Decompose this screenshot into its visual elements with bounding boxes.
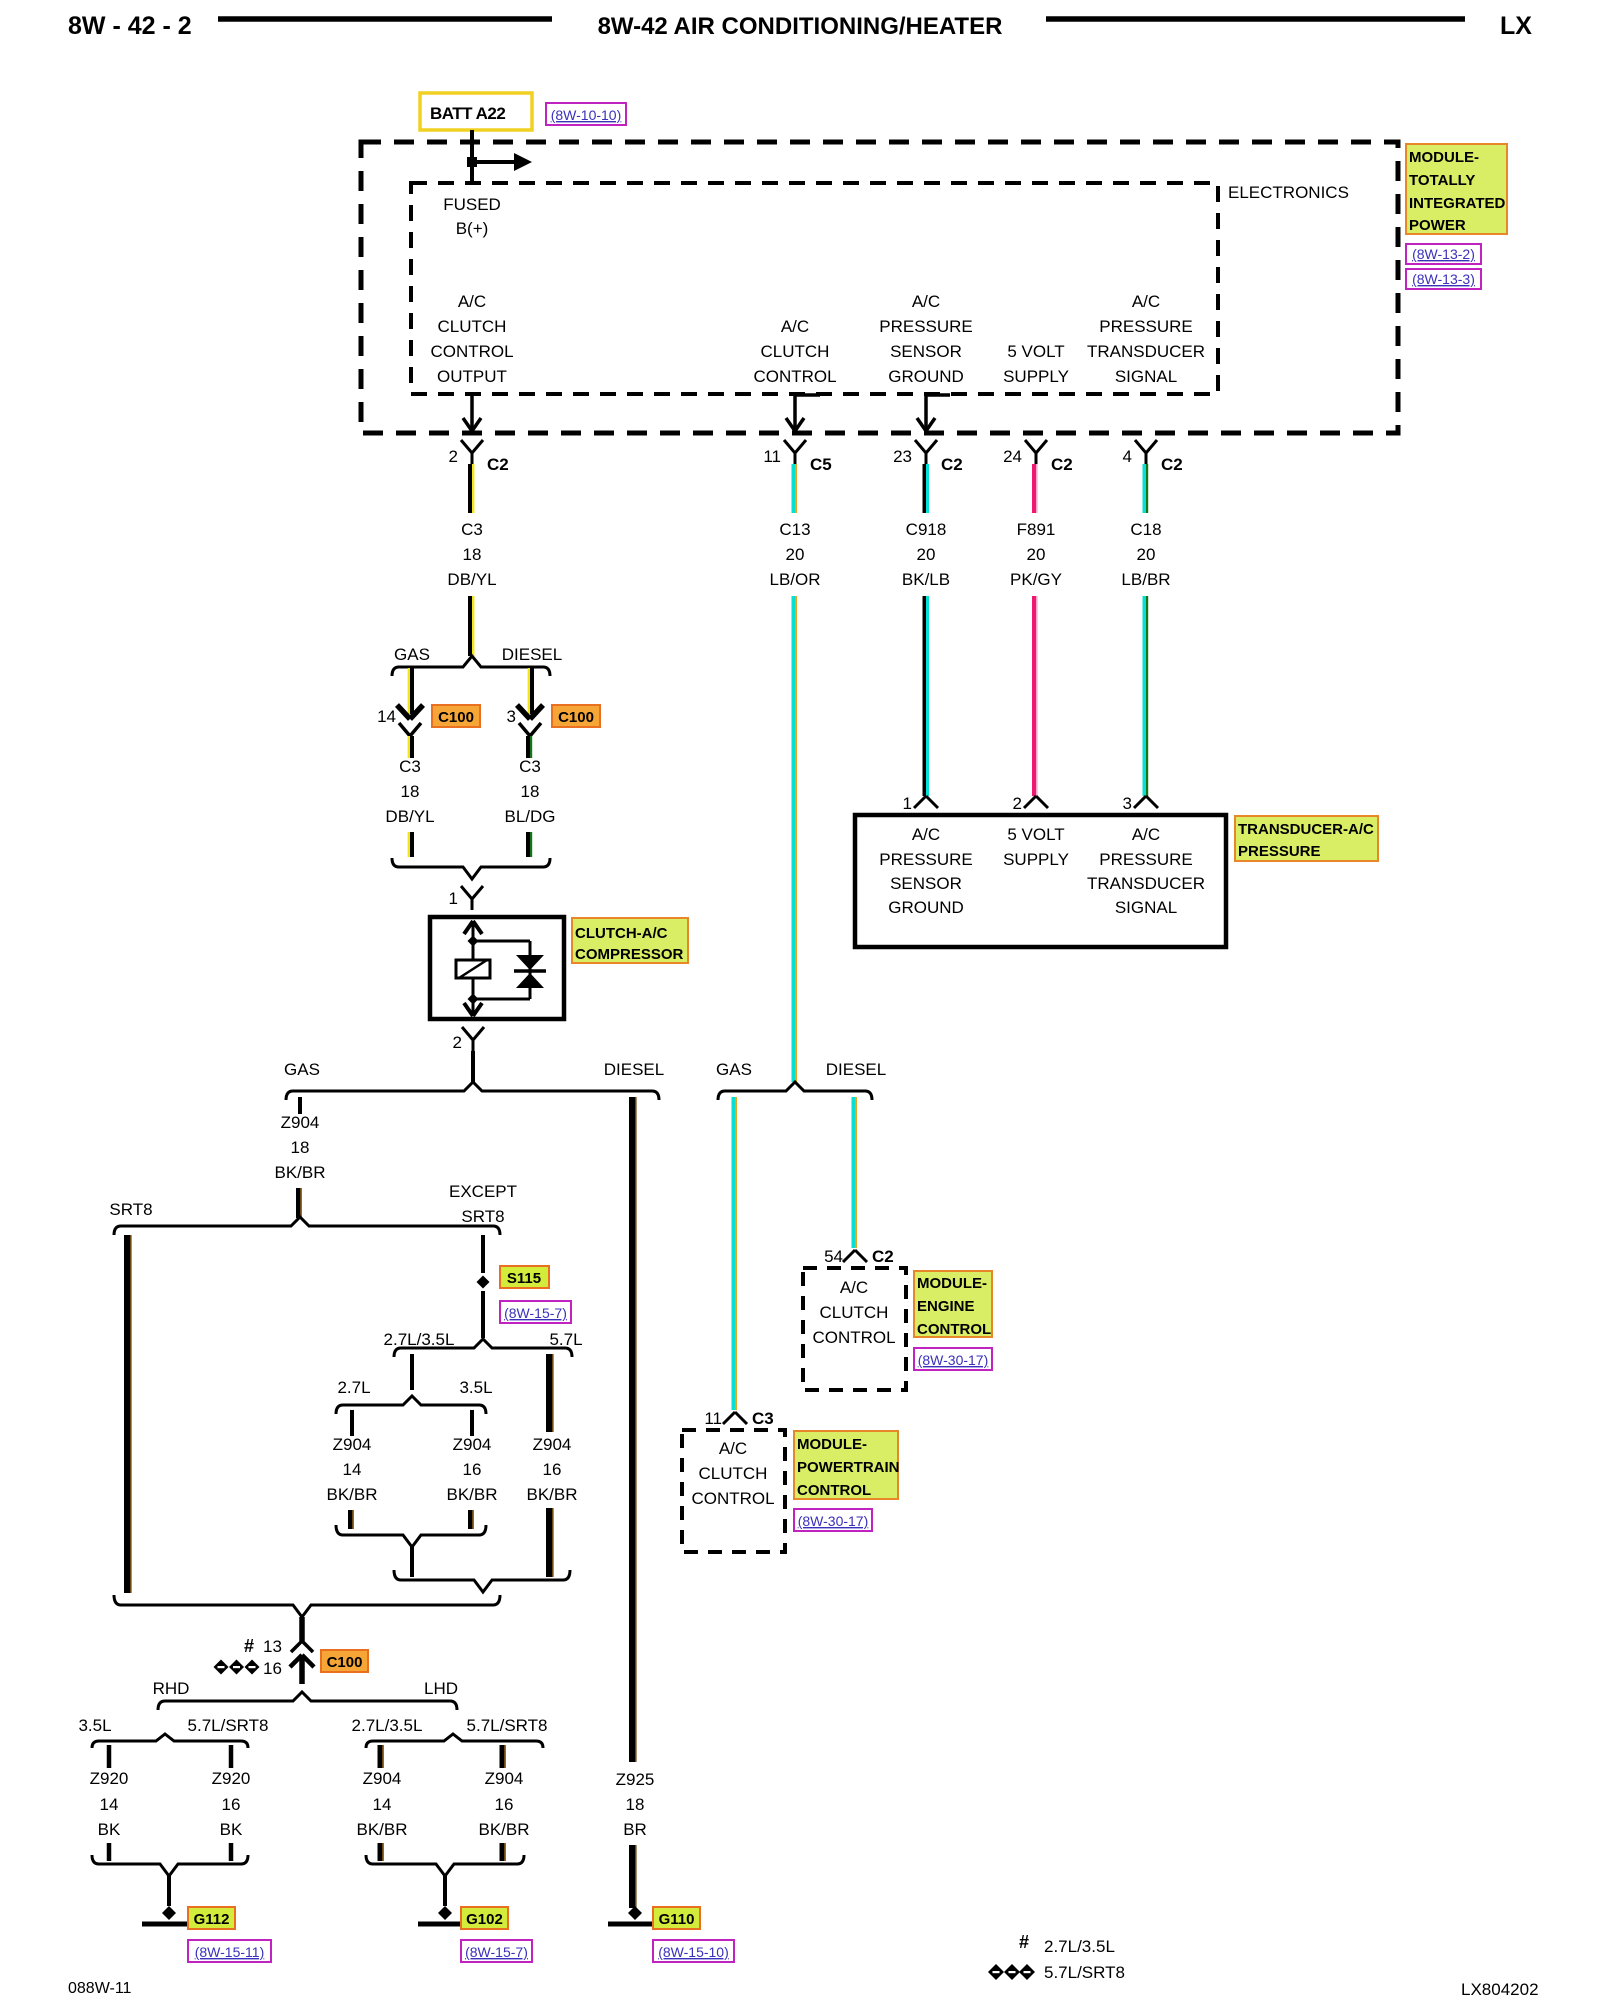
svg-text:BK/BR: BK/BR xyxy=(356,1820,407,1839)
svg-text:24: 24 xyxy=(1003,447,1022,466)
svg-text:11: 11 xyxy=(704,1409,722,1428)
svg-text:20: 20 xyxy=(917,545,936,564)
svg-text:16: 16 xyxy=(543,1460,562,1479)
svg-text:CONTROL: CONTROL xyxy=(691,1489,774,1508)
svg-text:Z904: Z904 xyxy=(281,1113,320,1132)
svg-text:2.7L: 2.7L xyxy=(337,1378,370,1397)
svg-text:14: 14 xyxy=(100,1795,119,1814)
svg-text:A/C: A/C xyxy=(912,825,940,844)
svg-text:(8W-10-10): (8W-10-10) xyxy=(551,107,622,123)
svg-text:14: 14 xyxy=(377,707,396,726)
svg-text:TRANSDUCER: TRANSDUCER xyxy=(1087,874,1205,893)
svg-text:CONTROL: CONTROL xyxy=(753,367,836,386)
svg-text:C100: C100 xyxy=(438,709,474,726)
svg-text:INTEGRATED: INTEGRATED xyxy=(1409,195,1506,212)
svg-text:18: 18 xyxy=(626,1795,645,1814)
svg-text:DIESEL: DIESEL xyxy=(502,645,562,664)
svg-text:(8W-30-17): (8W-30-17) xyxy=(798,1513,869,1529)
svg-text:2: 2 xyxy=(453,1033,462,1052)
svg-text:FUSED: FUSED xyxy=(443,195,501,214)
svg-text:(8W-15-10): (8W-15-10) xyxy=(658,1944,729,1960)
svg-text:20: 20 xyxy=(1027,545,1046,564)
svg-text:COMPRESSOR: COMPRESSOR xyxy=(575,946,684,963)
svg-text:3: 3 xyxy=(1123,794,1132,813)
svg-text:PRESSURE: PRESSURE xyxy=(879,850,973,869)
svg-text:Z904: Z904 xyxy=(363,1769,402,1788)
svg-text:ELECTRONICS: ELECTRONICS xyxy=(1228,183,1349,202)
svg-text:C3: C3 xyxy=(461,520,483,539)
svg-text:3.5L: 3.5L xyxy=(78,1716,111,1735)
svg-text:C2: C2 xyxy=(1051,455,1073,474)
svg-text:CONTROL: CONTROL xyxy=(917,1321,991,1338)
svg-text:54: 54 xyxy=(824,1247,843,1266)
svg-text:LB/OR: LB/OR xyxy=(769,570,820,589)
svg-text:PRESSURE: PRESSURE xyxy=(879,317,973,336)
svg-text:(8W-15-7): (8W-15-7) xyxy=(465,1944,528,1960)
svg-text:A/C: A/C xyxy=(458,292,486,311)
svg-text:C3: C3 xyxy=(399,757,421,776)
svg-text:20: 20 xyxy=(1137,545,1156,564)
svg-text:SIGNAL: SIGNAL xyxy=(1115,898,1177,917)
svg-text:18: 18 xyxy=(401,782,420,801)
svg-text:1: 1 xyxy=(449,889,458,908)
svg-text:16: 16 xyxy=(495,1795,514,1814)
svg-text:DB/YL: DB/YL xyxy=(385,807,434,826)
svg-text:Z904: Z904 xyxy=(533,1435,572,1454)
svg-text:C100: C100 xyxy=(327,1654,363,1671)
svg-text:2: 2 xyxy=(1013,794,1022,813)
svg-text:BK: BK xyxy=(98,1820,121,1839)
svg-text:SRT8: SRT8 xyxy=(109,1200,152,1219)
svg-text:PRESSURE: PRESSURE xyxy=(1238,843,1321,860)
svg-text:G110: G110 xyxy=(659,1911,695,1928)
svg-text:18: 18 xyxy=(521,782,540,801)
svg-text:2.7L/3.5L: 2.7L/3.5L xyxy=(384,1330,455,1349)
svg-text:5.7L/SRT8: 5.7L/SRT8 xyxy=(1044,1963,1125,1982)
svg-text:MODULE-: MODULE- xyxy=(797,1436,867,1453)
svg-text:Z904: Z904 xyxy=(453,1435,492,1454)
svg-text:5 VOLT: 5 VOLT xyxy=(1007,342,1064,361)
svg-text:5 VOLT: 5 VOLT xyxy=(1007,825,1064,844)
svg-text:DIESEL: DIESEL xyxy=(826,1060,886,1079)
svg-text:5.7L/SRT8: 5.7L/SRT8 xyxy=(467,1716,548,1735)
svg-text:3.5L: 3.5L xyxy=(459,1378,492,1397)
svg-text:#: # xyxy=(244,1636,254,1656)
svg-text:A/C: A/C xyxy=(1132,825,1160,844)
svg-text:CLUTCH: CLUTCH xyxy=(820,1303,889,1322)
svg-text:PRESSURE: PRESSURE xyxy=(1099,317,1193,336)
svg-text:POWER: POWER xyxy=(1409,217,1466,234)
svg-text:BK/LB: BK/LB xyxy=(902,570,950,589)
svg-text:BR: BR xyxy=(623,1820,647,1839)
svg-text:CLUTCH: CLUTCH xyxy=(699,1464,768,1483)
svg-text:ENGINE: ENGINE xyxy=(917,1298,975,1315)
svg-text:CONTROL: CONTROL xyxy=(430,342,513,361)
svg-text:16: 16 xyxy=(222,1795,241,1814)
svg-text:Z920: Z920 xyxy=(90,1769,129,1788)
svg-text:CONTROL: CONTROL xyxy=(797,1482,871,1499)
svg-text:TRANSDUCER: TRANSDUCER xyxy=(1087,342,1205,361)
svg-text:14: 14 xyxy=(343,1460,362,1479)
svg-text:BK/BR: BK/BR xyxy=(274,1163,325,1182)
svg-text:A/C: A/C xyxy=(719,1439,747,1458)
svg-text:(8W-30-17): (8W-30-17) xyxy=(918,1352,989,1368)
svg-text:TRANSDUCER-A/C: TRANSDUCER-A/C xyxy=(1238,821,1374,838)
svg-text:BL/DG: BL/DG xyxy=(504,807,555,826)
svg-text:BK/BR: BK/BR xyxy=(478,1820,529,1839)
svg-text:C13: C13 xyxy=(779,520,810,539)
svg-text:A/C: A/C xyxy=(912,292,940,311)
svg-text:(8W-13-3): (8W-13-3) xyxy=(1412,271,1475,287)
svg-text:DIESEL: DIESEL xyxy=(604,1060,664,1079)
svg-text:14: 14 xyxy=(373,1795,392,1814)
svg-text:2: 2 xyxy=(449,447,458,466)
svg-text:5.7L: 5.7L xyxy=(549,1330,582,1349)
svg-text:B(+): B(+) xyxy=(456,219,489,238)
svg-text:20: 20 xyxy=(786,545,805,564)
svg-text:C2: C2 xyxy=(872,1247,894,1266)
svg-text:G112: G112 xyxy=(194,1911,230,1928)
svg-text:SUPPLY: SUPPLY xyxy=(1003,367,1069,386)
svg-text:2.7L/3.5L: 2.7L/3.5L xyxy=(352,1716,423,1735)
svg-text:SIGNAL: SIGNAL xyxy=(1115,367,1177,386)
svg-text:11: 11 xyxy=(763,447,781,466)
svg-text:BK/BR: BK/BR xyxy=(526,1485,577,1504)
svg-text:Z925: Z925 xyxy=(616,1770,655,1789)
svg-text:C918: C918 xyxy=(906,520,947,539)
svg-text:MODULE-: MODULE- xyxy=(917,1275,987,1292)
svg-text:S115: S115 xyxy=(507,1270,541,1287)
svg-text:LX: LX xyxy=(1500,12,1532,40)
svg-text:RHD: RHD xyxy=(153,1679,190,1698)
svg-text:16: 16 xyxy=(463,1460,482,1479)
svg-text:F891: F891 xyxy=(1017,520,1056,539)
svg-text:C2: C2 xyxy=(487,455,509,474)
svg-text:GROUND: GROUND xyxy=(888,898,964,917)
svg-text:SUPPLY: SUPPLY xyxy=(1003,850,1069,869)
svg-text:PRESSURE: PRESSURE xyxy=(1099,850,1193,869)
svg-text:BATT A22: BATT A22 xyxy=(430,104,505,123)
svg-text:C3: C3 xyxy=(752,1409,774,1428)
svg-text:GAS: GAS xyxy=(716,1060,752,1079)
svg-text:23: 23 xyxy=(893,447,912,466)
svg-text:CLUTCH: CLUTCH xyxy=(438,317,507,336)
svg-text:EXCEPT: EXCEPT xyxy=(449,1182,517,1201)
svg-text:2.7L/3.5L: 2.7L/3.5L xyxy=(1044,1937,1115,1956)
svg-text:13: 13 xyxy=(263,1637,282,1656)
svg-text:8W - 42 - 2: 8W - 42 - 2 xyxy=(68,12,192,40)
svg-text:8W-42 AIR CONDITIONING/HEATER: 8W-42 AIR CONDITIONING/HEATER xyxy=(598,13,1003,40)
svg-text:DB/YL: DB/YL xyxy=(447,570,496,589)
svg-text:CONTROL: CONTROL xyxy=(812,1328,895,1347)
svg-text:OUTPUT: OUTPUT xyxy=(437,367,507,386)
svg-text:CLUTCH: CLUTCH xyxy=(761,342,830,361)
svg-text:Z920: Z920 xyxy=(212,1769,251,1788)
svg-text:TOTALLY: TOTALLY xyxy=(1409,172,1475,189)
svg-text:5.7L/SRT8: 5.7L/SRT8 xyxy=(188,1716,269,1735)
svg-text:LB/BR: LB/BR xyxy=(1121,570,1170,589)
svg-text:#: # xyxy=(1019,1932,1029,1952)
svg-text:Z904: Z904 xyxy=(333,1435,372,1454)
svg-text:POWERTRAIN: POWERTRAIN xyxy=(797,1459,900,1476)
svg-text:BK/BR: BK/BR xyxy=(446,1485,497,1504)
svg-text:Z904: Z904 xyxy=(485,1769,524,1788)
svg-text:A/C: A/C xyxy=(781,317,809,336)
svg-text:(8W-15-11): (8W-15-11) xyxy=(195,1944,265,1960)
svg-text:16: 16 xyxy=(263,1659,282,1678)
svg-text:(8W-13-2): (8W-13-2) xyxy=(1412,246,1475,262)
svg-text:SRT8: SRT8 xyxy=(461,1207,504,1226)
svg-text:SENSOR: SENSOR xyxy=(890,874,962,893)
svg-text:18: 18 xyxy=(291,1138,310,1157)
svg-text:SENSOR: SENSOR xyxy=(890,342,962,361)
svg-text:G102: G102 xyxy=(466,1911,503,1928)
svg-text:C2: C2 xyxy=(1161,455,1183,474)
svg-text:C3: C3 xyxy=(519,757,541,776)
svg-text:BK: BK xyxy=(220,1820,243,1839)
svg-text:A/C: A/C xyxy=(1132,292,1160,311)
svg-text:CLUTCH-A/C: CLUTCH-A/C xyxy=(575,925,668,942)
svg-text:C5: C5 xyxy=(810,455,832,474)
svg-text:LX804202: LX804202 xyxy=(1461,1980,1539,1999)
svg-text:C100: C100 xyxy=(558,709,594,726)
svg-text:A/C: A/C xyxy=(840,1278,868,1297)
svg-text:LHD: LHD xyxy=(424,1679,458,1698)
svg-text:088W-11: 088W-11 xyxy=(68,1980,132,1997)
svg-text:(8W-15-7): (8W-15-7) xyxy=(504,1305,567,1321)
svg-text:GAS: GAS xyxy=(394,645,430,664)
svg-text:18: 18 xyxy=(463,545,482,564)
svg-text:1: 1 xyxy=(903,794,912,813)
svg-text:C18: C18 xyxy=(1130,520,1161,539)
svg-text:C2: C2 xyxy=(941,455,963,474)
svg-text:4: 4 xyxy=(1123,447,1132,466)
svg-text:GROUND: GROUND xyxy=(888,367,964,386)
svg-text:MODULE-: MODULE- xyxy=(1409,149,1479,166)
svg-text:PK/GY: PK/GY xyxy=(1010,570,1062,589)
svg-text:BK/BR: BK/BR xyxy=(326,1485,377,1504)
svg-text:GAS: GAS xyxy=(284,1060,320,1079)
svg-text:3: 3 xyxy=(507,707,516,726)
